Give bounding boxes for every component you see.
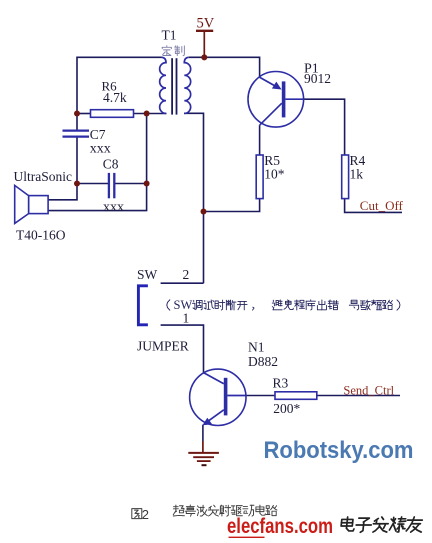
wire left rail lower bbox=[48, 137, 77, 200]
svg-text:2: 2 bbox=[142, 507, 149, 522]
transistor P1 emitter arrow bbox=[272, 82, 282, 90]
node C8 left junction bbox=[74, 181, 80, 187]
svg-text:5V: 5V bbox=[197, 16, 215, 32]
ground bbox=[188, 441, 219, 465]
jumper SW label bbox=[137, 267, 158, 282]
transistor P1 emitter lead bbox=[260, 77, 279, 88]
transformer T1 primary winding bbox=[160, 57, 166, 113]
wire transducer bottom bbox=[48, 210, 147, 212]
capacitor C8 designator bbox=[103, 157, 119, 172]
resistor R6 designator bbox=[102, 79, 118, 94]
svg-text:1k: 1k bbox=[350, 166, 364, 181]
wire C8 left bbox=[77, 183, 108, 185]
svg-text:10*: 10* bbox=[264, 166, 285, 181]
node R5 bottom junction bbox=[201, 209, 207, 215]
svg-text:elecfans.com: elecfans.com bbox=[227, 515, 333, 538]
wire secondary bottom bbox=[184, 113, 204, 283]
svg-text:R3: R3 bbox=[273, 376, 289, 391]
wire R3 right to Send_Ctrl bbox=[317, 395, 400, 397]
node R6 left junction bbox=[74, 111, 80, 117]
transducer LS1 body bbox=[29, 196, 48, 214]
wire P1 base to R4 bbox=[303, 99, 344, 155]
resistor R4 value bbox=[350, 166, 364, 181]
transformer T1 designator bbox=[162, 28, 177, 43]
wire P1 emitter drop bbox=[259, 57, 261, 78]
svg-text:Robotsky.com: Robotsky.com bbox=[264, 437, 414, 464]
jumper SW bracket bbox=[138, 286, 148, 325]
wire N1 base to R3 bbox=[246, 395, 275, 397]
svg-text:xxx: xxx bbox=[103, 200, 124, 215]
transducer label T40-16O bbox=[16, 227, 66, 242]
svg-text:1: 1 bbox=[183, 311, 190, 326]
transformer T1 secondary winding bbox=[184, 57, 190, 113]
capacitor C7 designator bbox=[90, 127, 106, 142]
watermark elecfans.com bbox=[227, 515, 333, 538]
wire R6 left stub bbox=[77, 113, 91, 115]
transistor P1 value bbox=[304, 71, 331, 86]
transistor P1 base lead bbox=[285, 98, 303, 100]
wire R4 bottom to Cut_Off bbox=[345, 198, 402, 212]
transducer label UltraSonic bbox=[14, 169, 73, 184]
capacitor C7 value bbox=[90, 142, 111, 157]
svg-text:C7: C7 bbox=[90, 127, 106, 142]
svg-text:xxx: xxx bbox=[90, 142, 111, 157]
transistor N1 body bbox=[190, 369, 246, 425]
jumper JUMPER label bbox=[137, 339, 189, 354]
wire SW pin 2 bbox=[161, 282, 204, 284]
transistor N1 value bbox=[248, 354, 278, 369]
svg-text:Cut_Off: Cut_Off bbox=[360, 198, 404, 213]
caption 图2 超声波发射驱动电路 bbox=[132, 505, 277, 522]
resistor R3 bbox=[275, 392, 317, 400]
wire top-left horizontal bbox=[77, 56, 162, 58]
transistor P1 collector lead bbox=[260, 103, 282, 125]
wire SW pin 1 to N1 collector bbox=[161, 325, 204, 373]
resistor R4 designator bbox=[350, 153, 366, 168]
net label Send_Ctrl bbox=[343, 384, 394, 398]
wire top right horizontal bbox=[189, 56, 260, 58]
svg-text:JUMPER: JUMPER bbox=[137, 339, 189, 354]
power 5V stem bbox=[203, 32, 205, 58]
svg-text:D882: D882 bbox=[248, 354, 278, 369]
node C8 right junction bbox=[144, 181, 150, 187]
svg-text:2: 2 bbox=[183, 267, 190, 282]
svg-text:N1: N1 bbox=[248, 339, 265, 354]
svg-text:Send_Ctrl: Send_Ctrl bbox=[343, 384, 394, 398]
transistor N1 base bar bbox=[224, 378, 228, 416]
resistor R6 bbox=[91, 110, 134, 118]
svg-text:9012: 9012 bbox=[304, 71, 331, 86]
svg-text:T40-16O: T40-16O bbox=[16, 227, 66, 242]
resistor R5 value bbox=[264, 166, 285, 181]
transistor P1 body bbox=[248, 72, 304, 128]
svg-text:SW: SW bbox=[174, 298, 193, 312]
transistor P1 designator bbox=[304, 61, 319, 76]
svg-text:200*: 200* bbox=[273, 401, 300, 416]
annotation SW note bbox=[167, 298, 400, 312]
transistor N1 emitter lead bbox=[207, 410, 224, 423]
wire left rail upper bbox=[76, 57, 78, 130]
transformer T1 value 定制 bbox=[162, 46, 184, 56]
resistor R3 value bbox=[273, 401, 300, 416]
watermark Robotsky.com bbox=[264, 437, 414, 464]
transformer T1 core bbox=[172, 58, 176, 114]
wire R6 right to primary bottom bbox=[134, 113, 167, 115]
resistor R3 designator bbox=[273, 376, 289, 391]
wire P1 collector to R5 bbox=[259, 125, 261, 155]
transistor N1 designator bbox=[248, 339, 265, 354]
wire R5 bottom to node bbox=[204, 198, 260, 211]
svg-text:SW: SW bbox=[137, 267, 158, 282]
transistor N1 emitter arrow bbox=[203, 418, 213, 426]
transistor N1 collector lead bbox=[204, 373, 224, 384]
capacitor C8 bbox=[109, 173, 114, 198]
node 5V junction bbox=[201, 54, 207, 60]
power 5V bar bbox=[196, 30, 213, 32]
wire C8 right bbox=[115, 183, 147, 185]
wire N1 emitter to ground bbox=[202, 425, 204, 441]
jumper pin 2 number bbox=[183, 267, 190, 282]
wire mid vertical x146 bbox=[146, 114, 148, 211]
svg-text:4.7k: 4.7k bbox=[103, 90, 127, 105]
capacitor C8 value bbox=[103, 200, 124, 215]
resistor R6 value bbox=[103, 90, 127, 105]
svg-text:T1: T1 bbox=[162, 28, 177, 43]
resistor R4 bbox=[342, 155, 349, 199]
svg-text:C8: C8 bbox=[103, 157, 119, 172]
transistor N1 base lead bbox=[227, 395, 245, 397]
power 5V label bbox=[197, 16, 215, 32]
jumper pin 1 number bbox=[183, 311, 190, 326]
resistor R5 designator bbox=[264, 153, 280, 168]
node R6 right junction bbox=[144, 111, 150, 117]
transducer LS1 horn bbox=[15, 185, 29, 223]
capacitor C7 bbox=[63, 131, 90, 137]
resistor R5 bbox=[256, 155, 263, 199]
net label Cut_Off bbox=[360, 198, 404, 213]
svg-text:UltraSonic: UltraSonic bbox=[14, 169, 73, 184]
transistor P1 base bar bbox=[282, 81, 286, 117]
watermark 电子发烧友 bbox=[341, 517, 423, 532]
